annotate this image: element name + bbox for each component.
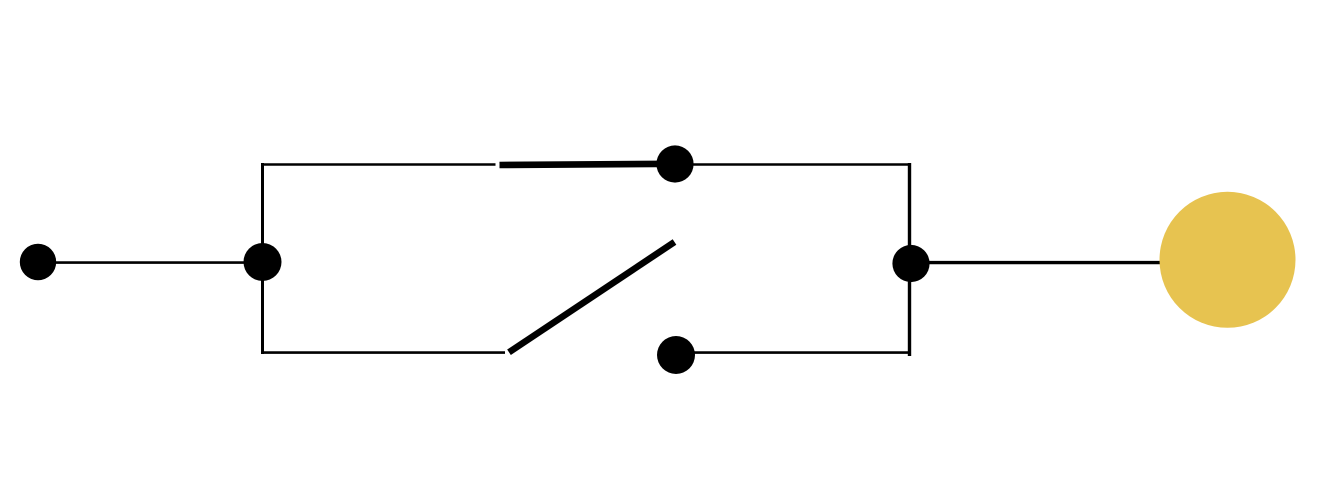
switch S1 blade (closed): [500, 164, 677, 165]
wire: left vertical bus: [261, 163, 264, 354]
node: bottom contact: [657, 336, 695, 374]
wire: bottom branch lead: [261, 351, 505, 354]
switch S2 blade (open): [509, 242, 675, 352]
wire: top branch lead: [261, 163, 496, 166]
node: right junction: [892, 245, 929, 282]
wire: input terminal to left junction: [52, 261, 263, 264]
wire: top contact to right bus: [675, 163, 910, 166]
wire: right junction to lamp: [911, 261, 1161, 264]
node: input terminal: [20, 244, 56, 280]
wire: bottom contact to right bus: [676, 351, 910, 354]
node: left junction: [244, 243, 282, 281]
lamp L1: [1160, 192, 1296, 328]
node: top contact: [656, 145, 693, 182]
wire: right vertical bus: [908, 163, 911, 356]
